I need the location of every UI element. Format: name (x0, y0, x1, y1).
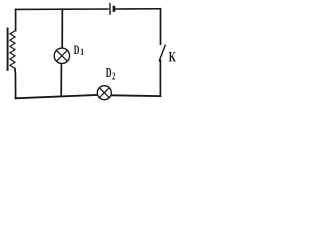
wire: left upper (top-left corner down to resistor) (15, 9, 17, 30)
svg-text:D: D (106, 66, 112, 81)
wire: D1 branch lower (lamp D1 down to bottom wire) (60, 64, 62, 96)
lamp D2 bulb circle (97, 86, 111, 100)
svg-text:K: K (169, 48, 177, 65)
label D2 (106, 66, 112, 81)
wire: bottom right segment (bottom-right corner to lamp D2) (112, 94, 161, 97)
label D1 (74, 43, 80, 58)
wire: right lower (switch to bottom-right corner) (159, 60, 161, 96)
svg-text:1: 1 (80, 48, 84, 58)
svg-text:D: D (74, 43, 80, 58)
battery cell: long positive plate (109, 4, 111, 15)
wire: D1 branch upper (top wire down to lamp D1) (61, 9, 63, 48)
svg-text:2: 2 (112, 70, 115, 82)
lamp D2 cross (99, 88, 109, 98)
battery cell: short thick negative plate (113, 6, 116, 12)
rheostat slider bar (7, 29, 9, 70)
label K (169, 48, 177, 65)
switch K blade (159, 45, 165, 60)
lamp D1 bulb circle (54, 48, 69, 63)
wire: left lower (resistor to bottom-left corner) (14, 69, 17, 99)
resistor R (zigzag) (10, 31, 16, 69)
wire: top right segment (battery to top-right corner) (116, 8, 161, 10)
wire: bottom left segment (lamp D2 to bottom-left corner) (16, 95, 97, 98)
wire: top left segment (top-left corner to battery) (16, 8, 108, 10)
lamp D1 cross (56, 50, 67, 61)
wire: right upper (top-right corner down to switch) (160, 9, 162, 44)
